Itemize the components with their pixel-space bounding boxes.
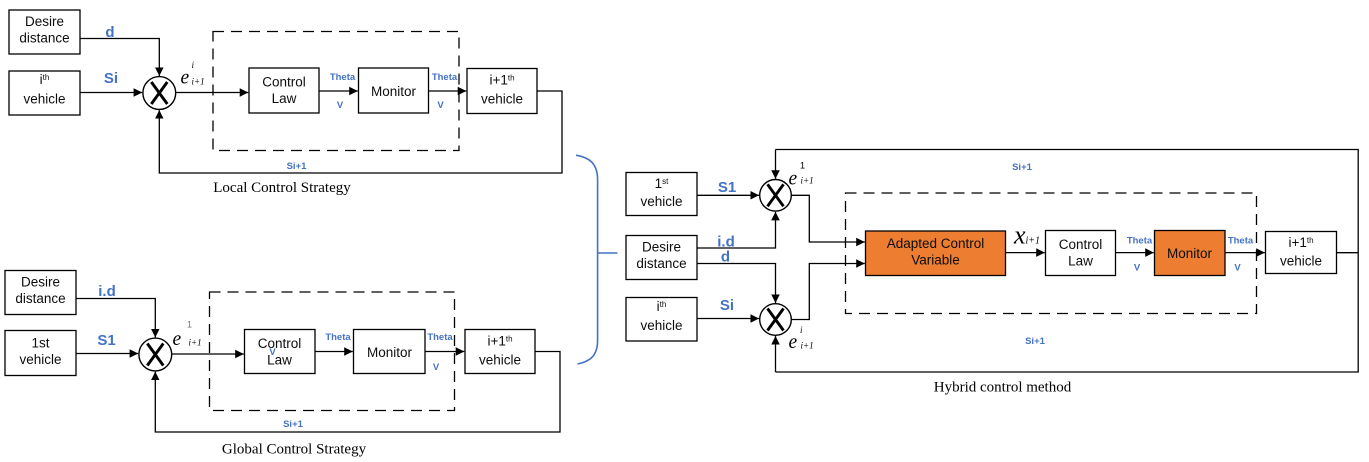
svg-text:Monitor: Monitor — [367, 345, 413, 360]
summing junction X (local) — [143, 77, 176, 110]
wire: bottom junction output to Adapted Control Variable (hybrid) — [791, 264, 865, 320]
svg-text:Theta: Theta — [330, 72, 356, 83]
label: e i / i+1 (local) — [181, 60, 205, 89]
svg-text:i+1th: i+1th — [489, 73, 514, 88]
svg-text:vehicle: vehicle — [481, 92, 523, 107]
svg-text:Desire: Desire — [642, 240, 681, 255]
wire: Control Law to Monitor (local) — [319, 90, 358, 92]
wire: error to Control Law (local) — [176, 92, 249, 94]
svg-text:e: e — [789, 169, 798, 190]
wire: d to bottom summing junction from above (hybrid) — [697, 264, 776, 304]
svg-text:vehicle: vehicle — [23, 92, 65, 107]
svg-text:1: 1 — [187, 320, 192, 330]
svg-text:distance: distance — [15, 291, 65, 306]
svg-text:vehicle: vehicle — [1280, 254, 1322, 269]
svg-text:i+1: i+1 — [801, 176, 814, 186]
svg-text:x: x — [1013, 221, 1026, 250]
svg-text:S1: S1 — [718, 179, 736, 196]
block: 1st vehicle (hybrid) — [626, 173, 697, 216]
svg-text:V: V — [437, 100, 444, 111]
svg-text:Local Control Strategy: Local Control Strategy — [213, 180, 351, 196]
svg-text:vehicle: vehicle — [19, 352, 61, 367]
block: i+1th vehicle (local) — [467, 69, 537, 114]
svg-text:Control: Control — [262, 75, 306, 90]
svg-text:Theta: Theta — [432, 72, 458, 83]
dashed box (global) — [210, 292, 455, 411]
block: i+1th vehicle (hybrid) — [1266, 232, 1337, 274]
svg-text:Si+1: Si+1 — [1012, 162, 1033, 173]
summing junction X (global) — [139, 338, 172, 371]
svg-text:V: V — [433, 362, 440, 373]
svg-text:i+1th: i+1th — [487, 334, 512, 349]
block: Adapted Control Variable (orange) — [866, 231, 1006, 276]
svg-text:V: V — [1234, 263, 1241, 274]
svg-text:i+1: i+1 — [192, 77, 205, 87]
wire: Control Law to Monitor (global) — [315, 351, 353, 353]
svg-text:ith: ith — [40, 72, 50, 87]
svg-text:vehicle: vehicle — [640, 318, 682, 333]
block: ith vehicle (local) — [9, 71, 80, 115]
svg-text:vehicle: vehicle — [479, 353, 521, 368]
wire: S1 to top summing junction (hybrid) — [697, 194, 759, 196]
svg-text:Theta: Theta — [1228, 236, 1254, 247]
svg-text:Global Control Strategy: Global Control Strategy — [222, 442, 367, 458]
svg-text:Law: Law — [1068, 254, 1093, 269]
block: Monitor (orange, hybrid) — [1155, 231, 1226, 276]
svg-text:i+1: i+1 — [1026, 236, 1041, 247]
svg-text:distance: distance — [19, 31, 69, 46]
wire: Monitor to i+1 vehicle (hybrid) — [1225, 252, 1265, 254]
svg-text:S1: S1 — [97, 332, 115, 349]
svg-text:i.d: i.d — [98, 283, 116, 300]
block: Control Law (hybrid) — [1046, 231, 1116, 276]
wire: error to Control Law (global) — [172, 353, 244, 355]
block: Control Law (local) — [249, 68, 319, 113]
dashed box (hybrid) — [846, 193, 1257, 314]
wire: Si to bottom summing junction (hybrid) — [697, 318, 759, 320]
wire: arrow up into bottom junction (hybrid) — [775, 336, 777, 372]
svg-text:i+1th: i+1th — [1288, 235, 1313, 250]
label: e 1 / i+1 top (hybrid) — [789, 161, 814, 190]
dashed box (local) — [213, 32, 459, 151]
wire: feedback Si+1 (global) — [155, 352, 560, 433]
svg-text:i: i — [800, 325, 803, 335]
svg-text:V: V — [269, 347, 276, 358]
svg-text:Desire: Desire — [21, 275, 60, 290]
wire: S1 from 1st vehicle to summing junction (global) — [76, 353, 138, 355]
block: ith vehicle (hybrid) — [626, 298, 697, 342]
svg-text:e: e — [173, 329, 182, 350]
svg-text:Si+1: Si+1 — [287, 161, 308, 172]
block: 1st vehicle (global) — [5, 331, 76, 376]
svg-text:ith: ith — [657, 299, 667, 314]
svg-text:e: e — [789, 332, 798, 353]
svg-text:1st: 1st — [31, 336, 49, 351]
svg-text:distance: distance — [636, 256, 686, 271]
svg-text:Monitor: Monitor — [1167, 246, 1213, 261]
svg-text:Si: Si — [104, 70, 118, 87]
svg-text:Control: Control — [1059, 237, 1103, 252]
block: Monitor (local) — [359, 68, 429, 113]
svg-text:1st: 1st — [655, 176, 670, 191]
wire: Si from ith vehicle to summing junction (local) — [80, 92, 142, 94]
svg-text:i: i — [192, 60, 195, 70]
svg-text:Si: Si — [720, 297, 734, 314]
block: Control Law (global) — [245, 330, 316, 374]
block: Monitor (global) — [354, 330, 426, 374]
svg-text:Si+1: Si+1 — [1025, 336, 1046, 347]
wire: i.d to top summing junction from below (hybrid) — [697, 212, 776, 248]
wire: Monitor to i+1 vehicle (local) — [429, 90, 467, 92]
svg-text:Desire: Desire — [25, 14, 64, 29]
summing junction X bottom (hybrid) — [760, 304, 792, 336]
svg-text:d: d — [721, 249, 730, 266]
svg-text:Variable: Variable — [911, 253, 960, 268]
svg-text:e: e — [181, 68, 190, 89]
wire: i+1 vehicle output to feedback line (hybrid) — [1337, 252, 1359, 254]
svg-text:i+1: i+1 — [189, 338, 202, 348]
svg-text:d: d — [105, 24, 114, 41]
block: Desire distance (hybrid) — [626, 236, 697, 280]
label: x i+1 (hybrid) — [1013, 221, 1040, 250]
svg-text:V: V — [1134, 263, 1141, 274]
wire: i.d from Desire distance to summing junction (global) — [76, 299, 155, 338]
wire: top feedback Si+1 line (hybrid) — [776, 150, 1359, 373]
svg-text:Theta: Theta — [325, 332, 351, 343]
svg-text:Hybrid control method: Hybrid control method — [934, 380, 1072, 396]
block: Desire distance (local) — [9, 10, 80, 54]
svg-text:Si+1: Si+1 — [283, 419, 304, 430]
svg-text:i+1: i+1 — [801, 341, 814, 351]
label: e i / i+1 bottom (hybrid) — [789, 325, 814, 353]
wire: top junction output to Adapted Control Variable (hybrid) — [791, 195, 865, 242]
wire: Control Law to Monitor (hybrid) — [1116, 252, 1154, 254]
svg-text:Law: Law — [272, 91, 297, 106]
wire: arrow down into top junction (hybrid) — [775, 150, 777, 179]
svg-text:1: 1 — [800, 161, 805, 171]
svg-text:Theta: Theta — [1127, 236, 1153, 247]
brace: blue curly brace joining the two strategies — [576, 155, 618, 364]
summing junction X top (hybrid) — [760, 180, 792, 212]
svg-text:Adapted Control: Adapted Control — [887, 236, 985, 251]
svg-text:Control: Control — [258, 336, 302, 351]
block: Desire distance (global) — [5, 271, 76, 315]
svg-text:vehicle: vehicle — [640, 194, 682, 209]
wire: feedback Si+1 (local) — [159, 91, 562, 173]
svg-text:Monitor: Monitor — [371, 84, 417, 99]
label: e 1 / i+1 (global) — [173, 320, 202, 351]
wire: Adapted Control Variable to Control Law (hybrid) — [1006, 252, 1045, 254]
wire: d from Desire distance to summing junction (local) — [80, 39, 159, 77]
block: i+1th vehicle (global) — [465, 330, 535, 374]
svg-text:Theta: Theta — [427, 332, 453, 343]
svg-text:V: V — [337, 100, 344, 111]
wire: Monitor to i+1 vehicle (global) — [425, 351, 464, 353]
